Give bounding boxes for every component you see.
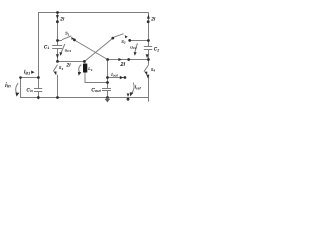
svg-text:IB1: IB1 — [24, 70, 30, 76]
inductor L1 top lead — [84, 62, 86, 64]
svg-text:iin: iin — [5, 82, 11, 89]
ground stub — [107, 98, 108, 99]
svg-text:C2: C2 — [154, 47, 160, 53]
current arrow Iout load branch — [127, 93, 130, 97]
wire Cout bottom lead — [107, 91, 109, 98]
node bottom rail / left rail — [37, 96, 40, 99]
wire center column (Cout branch) — [107, 60, 109, 89]
switch S4 arrowhead — [144, 72, 147, 76]
node bottom rail / left column — [56, 96, 59, 99]
switch S3 blade — [53, 65, 57, 72]
wire iin top — [21, 77, 39, 79]
capacitor Cout plates — [102, 88, 111, 90]
capacitor C1 plates — [52, 45, 62, 47]
switch S1 contact arrowhead — [71, 37, 74, 40]
voltage arrow uC2 shaft — [135, 43, 138, 52]
current source Iref arrowhead — [130, 92, 134, 96]
wire right rail lower segment — [148, 75, 150, 102]
svg-text:uC2: uC2 — [130, 44, 137, 50]
current source arc iin — [16, 83, 19, 94]
svg-text:2I: 2I — [150, 16, 156, 22]
svg-text:C1: C1 — [44, 45, 50, 51]
switch S4 blade — [144, 65, 149, 72]
switch S2 blade — [114, 34, 124, 38]
wire left column top stub — [57, 13, 59, 41]
node C1 top — [56, 39, 59, 42]
inductor L1 body — [83, 64, 87, 73]
current source arc L1 — [79, 65, 81, 74]
wire C1 bottom lead — [57, 49, 59, 62]
node left column / lower arm — [56, 60, 59, 63]
wire right rail top segment — [148, 13, 150, 47]
current arrow 2I on lower right wire — [118, 58, 121, 61]
node right rail / lower arm — [147, 58, 150, 61]
svg-text:Cin: Cin — [26, 87, 32, 93]
current arrow right rail above node — [146, 54, 149, 58]
switch S1 blade — [62, 36, 71, 40]
voltage arrow uC1 head — [59, 52, 62, 56]
node top rail / left column — [56, 11, 59, 14]
node lower right wire — [127, 58, 130, 61]
current arrow 2I left top — [56, 15, 59, 19]
current arrow left column above node — [56, 54, 59, 58]
svg-text:Iref: Iref — [135, 85, 142, 91]
switch S3 arrowhead — [54, 71, 57, 75]
wire cross diagonal B — [85, 38, 113, 61]
node iin corner — [19, 76, 22, 79]
node S2 wire — [128, 39, 131, 42]
wire S2 to right rail — [130, 40, 149, 42]
svg-text:S4: S4 — [151, 67, 156, 73]
wire lower horizontal right (A end to right rail) — [108, 59, 149, 61]
svg-text:Iout: Iout — [111, 72, 118, 78]
svg-text:Cout: Cout — [91, 87, 101, 93]
current source L1 arrowhead — [78, 72, 82, 76]
svg-text:2I: 2I — [65, 63, 71, 69]
node cross A top — [73, 39, 76, 42]
wire iin vertical branch — [21, 78, 39, 98]
node left rail / iin tee — [37, 76, 40, 79]
wire top rail — [38, 12, 149, 14]
current arrow 2I right top (up) — [147, 15, 150, 19]
capacitor Cin plates — [34, 88, 42, 90]
node bottom rail / Cout — [106, 96, 109, 99]
svg-text:S1: S1 — [65, 31, 70, 37]
wire left column bottom — [57, 75, 59, 98]
current source arc Iref — [132, 83, 135, 94]
wire cross diagonal A — [74, 40, 107, 60]
voltage arrow uC2 head — [134, 52, 137, 56]
node Iout end — [124, 76, 127, 79]
capacitor C2 plates — [144, 46, 152, 48]
node L1 top — [83, 60, 86, 63]
node cross B top — [111, 37, 114, 40]
wire lower horizontal left (node to L1) — [58, 61, 85, 63]
svg-text:2I: 2I — [59, 17, 65, 23]
current arrow Iout — [120, 76, 124, 79]
svg-text:L1: L1 — [88, 66, 93, 72]
switch S2 contact arrowhead — [125, 35, 128, 38]
node load branch / bottom rail — [127, 98, 130, 101]
voltage arrow uC1 shaft — [61, 44, 65, 53]
wire S1 stub — [58, 40, 63, 42]
wire left rail lower — [38, 92, 40, 100]
svg-text:2I: 2I — [119, 62, 125, 68]
node left column below arrow — [56, 20, 59, 23]
wire C1 top lead — [57, 41, 59, 46]
node L1 bottom tee — [106, 81, 109, 84]
current source iin arrowhead — [15, 93, 19, 97]
wire left rail upper — [38, 13, 40, 89]
node right column below arrow — [147, 20, 150, 23]
svg-text:uC1: uC1 — [65, 48, 72, 54]
ground triangle — [105, 99, 111, 103]
node cross A bottom — [106, 58, 109, 61]
wire Iout stub — [108, 77, 125, 79]
node Iout tee — [106, 76, 109, 79]
input current arrow IB — [31, 71, 34, 74]
current arrow right rail below S4 — [146, 75, 149, 79]
svg-text:S3: S3 — [59, 65, 64, 71]
svg-text:S2: S2 — [121, 39, 126, 45]
inductor L1 bottom lead + wire to center column — [85, 72, 108, 82]
wire bottom rail — [38, 97, 149, 99]
node right rail / top arm — [147, 39, 150, 42]
wire right rail mid segment — [148, 50, 150, 65]
